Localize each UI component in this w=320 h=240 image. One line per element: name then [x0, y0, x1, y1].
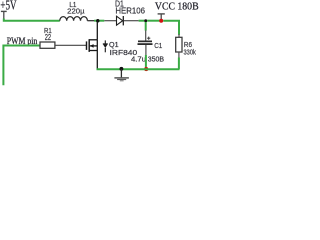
svg-text:350B: 350B: [148, 55, 164, 64]
node: drain junction dot: [96, 19, 100, 23]
wire PWM pin to R1 + stub down-left (green): [3, 46, 40, 86]
wire: [139, 20, 145, 22]
svg-text:330k: 330k: [184, 48, 197, 57]
wire +5V to L1 (green): [4, 19, 60, 21]
wire L1 to node (black): [87, 20, 94, 22]
wire (green stub): [94, 20, 97, 22]
svg-text:22: 22: [45, 33, 51, 42]
node: C1 top junction dot: [144, 19, 147, 22]
wire R6 top lead (grey): [178, 34, 180, 38]
+5V terminal symbol: [1, 11, 7, 18]
wire: [145, 55, 147, 68]
wire C1 node to VCC node (green): [147, 20, 159, 22]
transistor Q1 (N-MOSFET): [87, 21, 98, 69]
wire C1 bottom lead (grey then green): [145, 45, 147, 55]
wire: [178, 58, 180, 70]
svg-text:C1: C1: [154, 41, 162, 50]
wire bottom rail (green): [97, 68, 180, 70]
wire VCC node to R6 (green, corner down): [163, 21, 179, 35]
node: VCC junction dot (red): [159, 19, 163, 23]
svg-text:+5V: +5V: [0, 0, 16, 13]
resistor R6: [176, 37, 196, 56]
ground: [114, 69, 128, 81]
diode D1: [115, 0, 146, 25]
Q1 body diode: [103, 40, 108, 52]
wire node to D1 (green then grey): [100, 20, 105, 22]
svg-text:HER106: HER106: [115, 7, 145, 16]
wire R6 bottom lead (grey then green to rail): [178, 52, 180, 58]
VCC terminal symbol: [158, 14, 165, 19]
node: ground junction dot: [119, 67, 123, 71]
resistor R1: [40, 26, 55, 49]
svg-text:VCC 180B: VCC 180B: [155, 2, 199, 13]
capacitor C1: [131, 22, 164, 64]
wire R1 to Q1 gate (grey): [55, 44, 87, 46]
wire: [104, 20, 116, 22]
svg-text:IRF840: IRF840: [110, 48, 138, 57]
node: C1 bottom junction dot (red): [144, 67, 148, 71]
inductor L1: [60, 2, 88, 21]
svg-text:220µ: 220µ: [67, 6, 85, 15]
wire D1 to C1 node (grey then green): [124, 20, 139, 22]
